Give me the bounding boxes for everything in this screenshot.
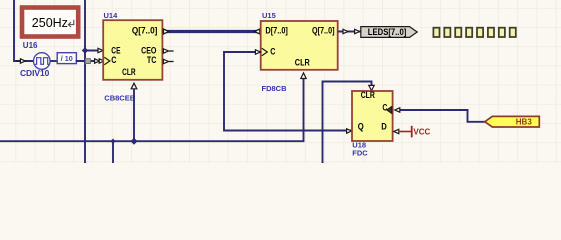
svg-text:CDIV10: CDIV10 (20, 68, 50, 78)
wire: branch to U14 CE (85, 50, 103, 52)
wire: branch down at x=113 (112, 141, 114, 163)
net label LEDS[7..0] (361, 27, 417, 38)
wire: clock vertical net (84, 0, 86, 163)
divide-by-10 box (57, 53, 76, 64)
wire: bottom clear net (0, 79, 304, 142)
text note box 250Hz (22, 8, 78, 37)
junction dot (x=113) (110, 139, 115, 144)
svg-text:FD8CB: FD8CB (262, 84, 288, 93)
LED indicator 3 (455, 28, 461, 37)
dff U15 body (261, 21, 338, 70)
svg-text:D[7..0]: D[7..0] (265, 26, 288, 36)
pin arrow: U14 C (double) (95, 59, 100, 63)
svg-text:D: D (381, 122, 387, 132)
junction dot (x=134) (131, 138, 138, 145)
svg-text:C: C (111, 55, 117, 65)
pin arrow: U18 D (394, 129, 399, 133)
pin arrow: LEDS tag end (355, 29, 360, 33)
LED indicator 1 (433, 28, 439, 37)
svg-text:LEDS[7..0]: LEDS[7..0] (368, 27, 407, 37)
clock triangle U14 (104, 57, 110, 64)
svg-text:CB8CEB: CB8CEB (104, 94, 135, 103)
wire: U18 CLR net (323, 82, 372, 164)
LED indicator 6 (488, 28, 494, 37)
wire: U18 C to HB3 (399, 110, 486, 122)
svg-text:HB3: HB3 (516, 118, 533, 127)
svg-text:C: C (270, 47, 276, 57)
svg-text:Q[7..0]: Q[7..0] (132, 26, 158, 36)
power VCC (399, 131, 412, 133)
svg-text:C: C (382, 103, 387, 113)
LED indicator 8 (510, 28, 516, 37)
svg-text:CLR: CLR (295, 57, 310, 67)
pin arrow: U14 CE (98, 48, 103, 52)
up arrow into U15 CLR (301, 73, 306, 79)
pin arrow: U18 Q (347, 129, 352, 133)
junction marker (gray) on clock wire (85, 59, 90, 64)
wire: divider output to U14 C (76, 60, 103, 62)
svg-text:Q[7..0]: Q[7..0] (312, 26, 335, 36)
clock divider symbol U16 (34, 53, 51, 70)
wire: U15 Q to LEDS tag (338, 31, 361, 33)
stub TC (169, 61, 174, 63)
stub CEO (169, 50, 174, 52)
bus Q[7..0] from U14 to U15 (162, 30, 260, 33)
return glyph (68, 20, 74, 27)
svg-text:/ 10: / 10 (61, 54, 73, 63)
counter U14 body (103, 20, 162, 80)
junction dot (clock net / CE branch) (82, 47, 88, 53)
net label HB3 (485, 116, 540, 127)
LED indicator 7 (499, 28, 505, 37)
pin arrow: U15 Q (343, 29, 348, 33)
svg-text:VCC: VCC (413, 127, 430, 136)
svg-text:250Hz: 250Hz (32, 16, 68, 30)
dff U18 body (mirrored FDC) (352, 91, 393, 141)
down arrow into U18 CLR (369, 85, 374, 90)
wire: U14 CLR to bottom net (133, 89, 135, 141)
svg-text:U15: U15 (262, 11, 276, 20)
svg-text:Q: Q (358, 122, 364, 132)
svg-text:U16: U16 (23, 41, 38, 50)
up arrow into U14 CLR (131, 83, 137, 89)
pin arrow: U18 C (395, 108, 400, 112)
wire: U15 C clock net (to U18 Q) (224, 52, 352, 131)
wire: U16 to divide box (50, 60, 57, 62)
svg-text:U14: U14 (104, 11, 119, 20)
LED indicator 4 (466, 28, 472, 37)
svg-text:CLR: CLR (122, 67, 136, 77)
svg-text:TC: TC (147, 55, 157, 65)
svg-text:FDC: FDC (352, 149, 368, 158)
wire: clock input net (left edge to U16) (14, 0, 33, 61)
pin arrow: CDIV10 input (17, 60, 21, 62)
pin arrow: U15 C (255, 50, 260, 54)
pin arrow: U14 Q bus end (163, 29, 168, 34)
clock triangle U15 (262, 48, 268, 55)
LED indicator 5 (477, 28, 483, 37)
pin arrow: U15 D bus end (254, 29, 259, 34)
clock triangle U18 (mirrored) (387, 107, 392, 114)
LED indicator 2 (444, 28, 450, 37)
svg-text:CLR: CLR (361, 90, 376, 100)
